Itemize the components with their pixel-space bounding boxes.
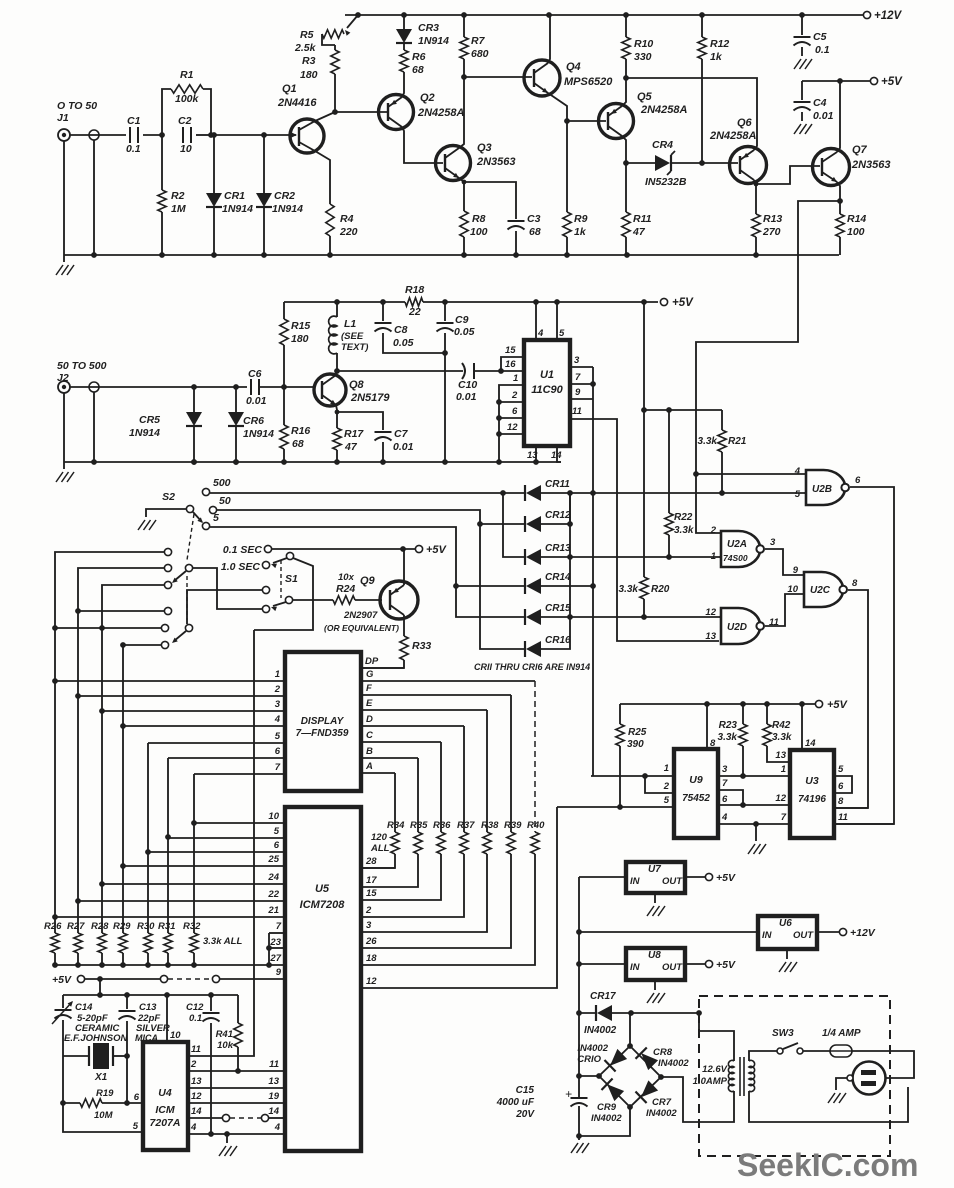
wire osc rail [63,994,238,996]
resistor R28 [98,933,106,953]
wire busS2 628 [55,627,161,629]
wire bus2 contact [78,610,165,612]
svg-text:CR17: CR17 [590,991,616,1002]
svg-text:16: 16 [505,359,516,370]
svg-text:1k: 1k [574,226,587,238]
wire disp B [361,757,418,759]
svg-text:74196: 74196 [798,794,826,805]
svg-text:ICM: ICM [155,1104,175,1116]
svg-text:+5V: +5V [881,76,903,88]
svg-text:1: 1 [664,763,669,774]
svg-text:R23: R23 [719,720,738,731]
wire bus2 lower [77,696,79,933]
svg-text:270: 270 [762,226,781,238]
transistor Q7 [813,149,850,186]
wire plug ground [836,1078,847,1090]
wire Q5 collector [622,136,626,163]
wire seg E drop [486,710,488,832]
svg-text:68: 68 [412,64,424,76]
diode CR1 [213,135,215,193]
svg-text:0.1: 0.1 [126,143,141,155]
svg-text:R31: R31 [158,921,175,932]
svg-text:J2: J2 [57,372,69,384]
capacitor C14 variable [62,995,64,1008]
svg-text:R30: R30 [137,921,155,932]
svg-text:2: 2 [365,905,372,916]
svg-text:U2A: U2A [727,539,747,550]
svg-text:5: 5 [664,795,670,806]
resistor R20 [643,410,645,577]
svg-text:CR12: CR12 [545,510,571,521]
svg-text:180: 180 [300,69,318,81]
wire U9 pin4 to U3 pin7 [718,823,790,825]
wire J1 input [70,134,126,136]
svg-text:1N914: 1N914 [418,35,449,47]
svg-text:+5V: +5V [672,297,694,309]
resistor R39 [507,832,515,854]
wire U6 out [817,931,839,933]
svg-text:180: 180 [291,333,309,345]
svg-text:6: 6 [512,406,518,417]
svg-text:R24: R24 [336,583,355,595]
wire Q2 emitter [402,72,404,97]
wire U2A in1 [719,556,721,558]
svg-text:A: A [365,761,373,772]
svg-text:10k: 10k [217,1040,234,1051]
svg-text:R35: R35 [410,820,428,831]
svg-text:3.3k: 3.3k [674,525,694,536]
svg-text:2: 2 [710,525,717,536]
svg-text:1M: 1M [171,203,186,215]
wire U3 pin5 pin6 tie [834,776,852,793]
svg-text:R14: R14 [847,213,866,225]
svg-text:IN4002: IN4002 [658,1058,689,1069]
crystal X1 [63,1055,89,1057]
svg-text:3.3k: 3.3k [772,732,792,743]
fuse F1 [803,1050,830,1052]
svg-text:5: 5 [275,731,281,742]
svg-text:11: 11 [269,1059,279,1070]
wire U5 pin6L [148,851,285,853]
wire U2D out [765,594,804,626]
wire U3 pin14 [801,704,803,750]
svg-text:R17: R17 [344,428,364,440]
wire Q8 collector [336,371,337,375]
ground U7 [654,893,656,903]
wire disp pin3 [102,710,285,712]
diode CR6 [235,387,237,412]
svg-text:DP: DP [365,656,379,667]
switch S1 contact 1.0SEC [262,561,269,568]
svg-text:0.01: 0.01 [456,391,477,403]
resistor R29 [119,933,127,953]
svg-text:IN: IN [630,876,641,887]
diode CR3 [403,15,405,29]
svg-text:IN4002: IN4002 [577,1043,608,1054]
svg-text:1.0AMP: 1.0AMP [693,1076,728,1087]
wire U3 pin8 [834,807,868,809]
diode CR13 [526,549,541,565]
svg-text:R28: R28 [91,921,109,932]
svg-text:6: 6 [275,746,281,757]
svg-text:12: 12 [705,607,716,618]
svg-text:CR13: CR13 [545,543,571,554]
transistor Q6 [730,147,767,184]
svg-text:Q8: Q8 [349,379,365,391]
svg-text:4: 4 [537,328,544,339]
wire U9 pin5 [557,806,674,808]
svg-text:R21: R21 [728,436,747,447]
resistor R25 [619,704,621,724]
svg-text:7207A: 7207A [150,1117,181,1129]
svg-text:0.01: 0.01 [393,441,414,453]
resistor R32 [190,933,198,953]
wire disp pin1 [55,680,285,682]
svg-text:CR15: CR15 [545,603,571,614]
transistor Q2 [379,95,414,130]
svg-text:U2C: U2C [810,585,831,596]
inductor L1 [336,302,338,317]
svg-text:D: D [366,714,373,725]
svg-text:CR6: CR6 [243,415,264,427]
svg-text:13: 13 [527,450,538,461]
svg-text:R15: R15 [291,320,310,332]
connector J2 [58,381,70,393]
svg-text:C13: C13 [139,1002,157,1013]
wire primary top [749,1051,777,1061]
svg-text:2: 2 [511,390,518,401]
svg-text:25: 25 [267,854,279,865]
wire U9 pin3 to U3 pin1 [718,775,790,777]
wire bus3 lower [101,711,103,933]
svg-text:SeekIC.com: SeekIC.com [737,1147,918,1183]
svg-text:OUT: OUT [662,876,683,887]
resistor R42 [766,704,768,724]
capacitor C5 [801,15,803,35]
wire top ground rail [64,254,839,256]
svg-text:R18: R18 [405,284,424,296]
wire U4 pin10 [166,995,168,1042]
svg-text:SW3: SW3 [772,1028,794,1039]
svg-text:8: 8 [838,796,844,807]
svg-text:R42: R42 [772,720,791,731]
wire 500 to CR13 [503,493,524,557]
svg-text:CR2: CR2 [274,190,295,202]
switch S2 pole2 [185,564,192,571]
wire Q9 emitter [403,549,405,585]
diode CR5 [193,387,195,412]
wire Q5 emitter [622,78,626,106]
svg-text:12.6V: 12.6V [702,1064,727,1075]
svg-text:2N5179: 2N5179 [350,392,390,404]
svg-text:CR5: CR5 [139,414,160,426]
wire bridge right [661,1077,734,1122]
svg-text:R11: R11 [633,213,652,225]
wire sec top [699,1013,734,1061]
wire U5 pin25 [123,865,285,867]
diode CR17 [579,1012,596,1014]
svg-text:1: 1 [711,551,716,562]
wire bus7 [193,774,195,933]
svg-text:R12: R12 [710,38,729,50]
svg-text:C15: C15 [516,1085,535,1096]
svg-text:Q1: Q1 [282,83,297,95]
svg-text:6: 6 [134,1092,140,1103]
svg-text:C5: C5 [813,31,827,43]
svg-text:22: 22 [408,306,421,318]
diode CR10 [610,1049,627,1066]
svg-text:DISPLAY: DISPLAY [301,716,345,727]
gate U2C [804,572,843,607]
gate U2B [806,470,845,505]
svg-text:R37: R37 [457,820,475,831]
svg-text:R13: R13 [763,213,782,225]
wire U2B out [836,487,894,824]
transistor Q3 [436,146,471,181]
svg-text:28: 28 [365,856,377,867]
svg-text:G: G [366,669,374,680]
svg-text:10: 10 [180,143,192,155]
wire U1 pin14 [557,446,561,462]
svg-text:7: 7 [575,372,581,383]
wire mid ground rail [64,461,561,463]
svg-text:3: 3 [275,699,281,710]
svg-text:27: 27 [269,953,281,964]
svg-text:20V: 20V [515,1109,535,1120]
svg-text:7: 7 [275,762,281,773]
wire to Q1 gate [211,134,296,136]
svg-text:11C90: 11C90 [531,384,563,396]
wire U2A in2 [696,474,721,533]
wire U1 pin11 to U2D [570,419,719,641]
resistor R38 [483,832,491,854]
wire U7 out [685,876,705,878]
wire U5 pin7 [269,932,285,934]
wire disp D [361,725,464,727]
capacitor C10 [462,363,465,379]
svg-text:74S00: 74S00 [723,553,748,563]
wire primary bottom [749,1087,908,1122]
wire U7 in [579,876,626,878]
gate U2D [721,608,760,644]
svg-text:4: 4 [274,714,281,725]
wire disp E [361,709,487,711]
svg-text:3.3k ALL: 3.3k ALL [203,936,242,947]
svg-text:1: 1 [513,373,518,384]
resistor R17 [333,428,341,450]
resistor R35 [414,832,422,854]
wire U4 pin2 to U5 pin11 [188,1070,285,1072]
resistor R9 [566,121,568,212]
wire U6 in [579,931,758,933]
wire bus3 [102,585,165,711]
wire U1 pin13 [535,446,537,462]
svg-text:C: C [366,730,373,741]
svg-text:Q7: Q7 [852,144,868,156]
node B [208,132,214,138]
svg-text:C10: C10 [458,379,477,391]
wire U1 pin4 [535,302,537,340]
svg-text:4000 uF: 4000 uF [496,1097,535,1108]
wire U5 pin10 [194,822,285,824]
svg-text:U2B: U2B [812,484,832,495]
capacitor C12 [210,995,212,1011]
svg-text:0.1 SEC: 0.1 SEC [223,544,263,556]
svg-text:R38: R38 [481,820,499,831]
wire seg C drop [440,742,442,832]
wire U5 pin28 [361,867,395,869]
connector J1 [58,129,70,141]
IC U6 regulator [758,916,817,949]
wire bridge bottom [579,1107,630,1136]
svg-text:C6: C6 [248,368,262,380]
capacitor C7 [375,431,392,433]
svg-text:C7: C7 [394,428,409,440]
svg-text:5: 5 [559,328,565,339]
svg-text:1N914: 1N914 [129,427,160,439]
wire U3 pin11 [836,823,894,825]
resistor R6 [400,50,408,72]
svg-text:500: 500 [213,477,231,489]
svg-text:B: B [366,746,373,757]
resistor R14 [839,201,841,214]
wire Q4 collector [548,15,550,63]
svg-text:1N914: 1N914 [243,428,274,440]
wire U5 pin22 [78,900,285,902]
svg-text:0.1: 0.1 [815,44,830,56]
svg-text:1: 1 [781,764,786,775]
wire U9 pin2 [645,776,674,793]
svg-text:CR4: CR4 [652,139,673,151]
svg-text:12: 12 [507,422,518,433]
svg-text:CR9: CR9 [597,1102,617,1113]
svg-text:2N4258A: 2N4258A [417,107,465,119]
svg-text:U7: U7 [648,864,661,875]
svg-text:24: 24 [267,872,279,883]
IC U5 ICM7208 [285,807,361,1151]
svg-text:22: 22 [267,889,279,900]
resistor R3 [334,45,336,50]
svg-text:U9: U9 [689,774,703,786]
capacitor C15 [571,1097,588,1099]
wire disp C [361,741,441,743]
svg-text:IN4002: IN4002 [584,1025,617,1036]
wire U5 pin12 [361,807,557,988]
svg-text:6: 6 [722,794,728,805]
wire U2C out [836,590,868,808]
IC U3 74196 [790,750,834,838]
node Q5 collector-R10 [623,75,629,81]
svg-text:0.01: 0.01 [246,395,267,407]
svg-text:Q9: Q9 [360,575,376,587]
transistor Q8 [314,374,346,406]
svg-text:CR14: CR14 [545,572,571,583]
svg-text:12: 12 [191,1091,202,1102]
diode CR16 [526,641,541,657]
wire R26-R32 common [55,964,285,966]
svg-text:0.05: 0.05 [393,337,414,349]
svg-text:7: 7 [781,812,787,823]
svg-text:U1: U1 [540,369,554,381]
switch S1 contact aux [262,586,269,593]
wire U4 pin5 [63,1103,143,1132]
svg-text:Q2: Q2 [420,92,435,104]
svg-text:MPS6520: MPS6520 [564,76,613,88]
svg-text:F: F [366,683,372,694]
wire U5 pin5L [168,837,285,839]
wire busS2 645 [123,644,161,646]
diode CR2 [263,135,265,193]
wire bus5 [147,743,149,933]
svg-text:3: 3 [574,355,580,366]
svg-text:3: 3 [722,764,728,775]
svg-text:R26: R26 [44,921,62,932]
svg-text:11: 11 [191,1044,201,1055]
wire bus6 [167,758,169,933]
svg-text:+12V: +12V [850,927,876,939]
svg-text:680: 680 [471,48,489,60]
diode CR15 [526,609,541,625]
wire 5 line [202,522,209,529]
resistor R26 [51,933,59,953]
node +5V terminal mid [660,298,667,305]
resistor R33 [400,636,408,660]
switch S1 contact lower [262,605,269,612]
svg-text:5: 5 [838,764,844,775]
svg-text:C9: C9 [455,314,469,326]
resistor R13 [752,214,760,237]
resistor R1 [162,89,171,135]
IC U4 ICM7207A [143,1042,188,1150]
svg-text:OUT: OUT [793,930,814,941]
svg-text:TEXT): TEXT) [341,342,368,353]
svg-text:3: 3 [366,920,372,931]
wire seg G drop dashed [534,681,536,832]
wire U5 pin23 [269,947,285,949]
diode CR9 [607,1084,624,1101]
svg-text:IN: IN [630,962,641,973]
wire Q4 emitter [548,93,567,121]
svg-text:Q3: Q3 [477,142,492,154]
svg-text:3.3k: 3.3k [698,436,718,447]
svg-text:12: 12 [366,976,377,987]
svg-text:120: 120 [371,832,388,843]
svg-text:0.01: 0.01 [813,110,834,122]
svg-text:2N4258A: 2N4258A [709,130,757,142]
wire disp F [361,694,511,696]
wire U1 pin15 tie [501,357,524,371]
wire +5V rail mid [284,301,405,303]
wire Q8 emitter [336,405,337,428]
transformer T1 [728,1060,734,1091]
svg-text:CR1: CR1 [224,190,245,202]
wire Q3 emitter [459,178,464,211]
node U2B5 [719,490,725,496]
resistor R18 [405,298,423,306]
wire raw DC bus [578,877,580,1098]
ground S2 [146,509,186,517]
resistor R4 [326,204,334,236]
resistor R21 [721,410,723,430]
wire bridge left [579,1075,599,1077]
wire seg B drop [417,758,419,832]
wire U4 pin4 to U5 pin4 [188,1133,285,1135]
svg-text:0.05: 0.05 [454,326,475,338]
svg-text:+5V: +5V [52,974,72,986]
svg-text:1k: 1k [710,51,723,63]
svg-text:14: 14 [191,1106,202,1117]
svg-text:7: 7 [276,921,282,932]
